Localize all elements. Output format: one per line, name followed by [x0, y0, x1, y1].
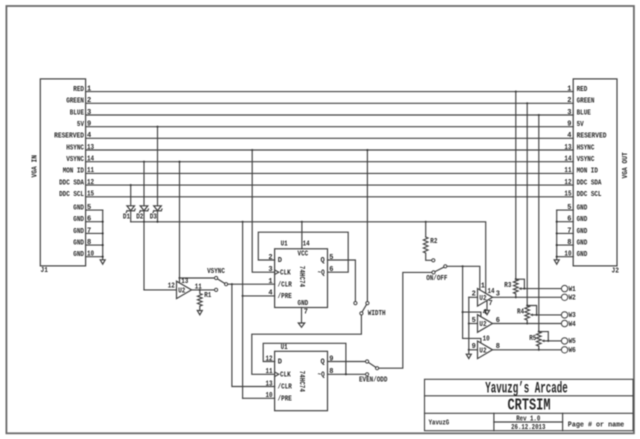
svg-text:VGA OUT: VGA OUT [622, 152, 630, 178]
wire J2 GND bus vertical [556, 210, 558, 260]
svg-text:1: 1 [567, 85, 571, 93]
svg-text:VSYNC: VSYNC [66, 156, 84, 164]
port W2 [561, 294, 567, 300]
junction VSYNC line tap [178, 161, 180, 163]
port W5 [561, 338, 567, 344]
svg-text:6: 6 [87, 216, 91, 224]
svg-text:VCC: VCC [298, 250, 309, 258]
wire U1A VCC to 5V bus [301, 222, 303, 249]
wire J2 GND10 stub [557, 256, 574, 258]
junction R4 wiper to W3 [536, 314, 538, 316]
wire CLR net vertical to U1B [232, 284, 275, 386]
J1 pin names [54, 86, 85, 199]
svg-text:J1: J1 [41, 267, 48, 275]
svg-text:3: 3 [87, 109, 91, 117]
svg-text:GND: GND [73, 228, 84, 236]
wire D1 cathode to 5V bus [130, 211, 132, 222]
connector J1 body [40, 79, 85, 266]
junction R5 wiper to W5 [547, 340, 549, 342]
terminal WIDTH common [360, 312, 363, 315]
svg-text:~Q: ~Q [318, 269, 325, 277]
junction 5V tap for D3 [156, 126, 158, 128]
terminal ON/OFF top throw [432, 259, 435, 262]
svg-text:2: 2 [567, 97, 571, 105]
terminal WIDTH right [366, 302, 369, 305]
junction OE rail top [462, 265, 464, 267]
svg-text:U2: U2 [479, 295, 486, 303]
wire BLUE drop to R5 [538, 115, 540, 332]
wire D2 anode from VSYNC [143, 162, 145, 206]
junction bus at D2 [143, 221, 145, 223]
svg-text:BLUE: BLUE [577, 109, 591, 117]
svg-text:13: 13 [266, 380, 273, 388]
wire J1 GND bus vertical [102, 210, 104, 260]
svg-text:DDC SCL: DDC SCL [577, 191, 602, 199]
buffer U2B [478, 315, 493, 333]
svg-text:U2: U2 [479, 321, 486, 329]
wire GREEN J1.2 to J2.2 [86, 102, 574, 104]
wire W3 row [537, 314, 562, 316]
svg-text:5: 5 [567, 204, 571, 212]
junction VSYNC at gate OE [178, 277, 180, 279]
svg-text:MON ID: MON ID [63, 168, 84, 176]
wire D3 anode from 5V [157, 127, 159, 206]
svg-text:5V: 5V [77, 121, 85, 129]
svg-text:3: 3 [567, 109, 571, 117]
svg-text:9: 9 [87, 121, 91, 129]
svg-text:R4: R4 [517, 309, 524, 317]
wire D2 riser down to gate input [143, 222, 145, 290]
svg-text:13: 13 [564, 144, 571, 152]
junction R4 bottom to W4 [526, 322, 528, 324]
wire gate U2D input pin 12 [144, 289, 177, 291]
port W4 [561, 320, 567, 326]
svg-text:U1: U1 [281, 344, 288, 352]
junction J2 GND7 [556, 232, 558, 234]
wire HSYNC J1.13 to J2.13 [86, 149, 574, 151]
svg-text:GND: GND [73, 216, 84, 224]
terminal EVEN/ODD top [366, 360, 369, 363]
junction J1 GND10 [102, 256, 104, 258]
wire J2 GND8 stub [557, 244, 574, 246]
J2 GND pins group [554, 204, 587, 264]
wire VSYNC J1.14 to J2.14 [86, 161, 574, 163]
svg-text:GND: GND [577, 204, 588, 212]
svg-text:D1: D1 [123, 214, 130, 222]
svg-text:14: 14 [87, 156, 94, 164]
wire DDC SCL J1.15 to J2.15 [86, 196, 574, 198]
svg-text:6: 6 [329, 266, 333, 274]
wire U2C input pin 9 [469, 349, 478, 351]
svg-text:4: 4 [87, 132, 91, 140]
clock wedge U1A [275, 270, 279, 275]
svg-text:1: 1 [268, 278, 272, 286]
svg-text:GND: GND [73, 251, 84, 259]
svg-text:/CLR: /CLR [278, 281, 293, 289]
ground symbol below J2 [554, 260, 559, 264]
buffer U2C [478, 341, 493, 359]
svg-text:3: 3 [268, 266, 272, 274]
wire gate U2D OE pin 13 [179, 278, 181, 283]
R5 wiper arrow [543, 340, 548, 342]
wire W6 row from U2C output [493, 349, 562, 351]
terminal ON/OFF bottom throw [432, 271, 435, 274]
wire RESERVED J1.4 to J2.4 [86, 137, 574, 139]
svg-text:DDC SDA: DDC SDA [59, 179, 85, 187]
svg-text:~Q: ~Q [318, 372, 325, 380]
ground symbol below U2A [485, 310, 490, 314]
J1 pin numbers [87, 85, 94, 198]
junction bus at R2 [425, 221, 427, 223]
svg-text:WIDTH: WIDTH [368, 310, 386, 318]
junction R4 top [526, 304, 528, 306]
svg-text:W5: W5 [569, 338, 576, 346]
resistor R2 [423, 222, 437, 260]
wire W5 row [548, 340, 561, 342]
switch VSYNC lever [218, 279, 225, 284]
svg-text:4: 4 [483, 309, 487, 317]
junction J2 GND10 [556, 256, 558, 258]
svg-text:D: D [278, 359, 282, 367]
title block frame [425, 379, 634, 430]
ground symbol below J1 [100, 260, 105, 264]
J2 pin names and numbers [564, 85, 606, 199]
buffer gate U2D [177, 281, 192, 298]
svg-text:GND: GND [73, 240, 84, 248]
junction input rail U2C [468, 349, 470, 351]
junction R3 wiper to W1 [523, 288, 525, 290]
wire 5V bus to R2 [425, 222, 427, 237]
svg-text:MON ID: MON ID [577, 168, 598, 176]
svg-text:CRTSIM: CRTSIM [508, 397, 551, 415]
svg-text:GND: GND [298, 300, 309, 308]
svg-text:DDC SCL: DDC SCL [59, 191, 84, 199]
svg-text:5V: 5V [577, 121, 585, 129]
port W3 [561, 312, 567, 318]
svg-text:W1: W1 [569, 286, 576, 294]
junction HSYNC at WIDTH riser [366, 149, 368, 151]
svg-text:1: 1 [481, 283, 485, 291]
svg-text:10: 10 [564, 251, 571, 259]
junction J2 GND8 [556, 244, 558, 246]
svg-text:W2: W2 [569, 295, 576, 303]
resistor R2 body [423, 237, 431, 260]
wire J1 GND7 stub [86, 232, 103, 234]
wire 5V supply bus horizontal [131, 222, 486, 293]
terminal VSYNC switch top [215, 276, 218, 279]
svg-text:R1: R1 [204, 292, 211, 300]
svg-text:13: 13 [181, 278, 188, 286]
svg-text:9: 9 [329, 355, 333, 363]
wire PRE to U1B pin 10 [243, 397, 275, 399]
wire R4 wiper hook [527, 306, 536, 315]
svg-text:GND: GND [73, 204, 84, 212]
wire D1 anode from DDC SDA [130, 185, 132, 206]
svg-text:5: 5 [329, 254, 333, 262]
wire U1B feedback /Q to D [263, 343, 346, 374]
wire U1B Q to EVEN/ODD switch [328, 361, 366, 363]
svg-text:74HC74: 74HC74 [297, 371, 305, 392]
wire D3 cathode to 5V bus [157, 211, 159, 222]
wire D2 cathode to 5V bus [143, 211, 145, 222]
svg-text:RESERVED: RESERVED [54, 133, 84, 141]
svg-text:/PRE: /PRE [278, 396, 292, 404]
svg-text:RED: RED [73, 86, 84, 94]
wire BLUE J1.3 to J2.3 [86, 114, 574, 116]
junction J2 GND6 [556, 221, 558, 223]
junction DDC SDA tap for D1 [130, 184, 132, 186]
IC U1A body [275, 249, 328, 308]
junction BLUE tap [538, 114, 540, 116]
svg-text:CLK: CLK [280, 372, 291, 380]
svg-text:CLK: CLK [280, 269, 291, 277]
diode D2 [140, 206, 148, 211]
wire buffer input rail [468, 297, 470, 354]
IC U1B body [275, 351, 328, 410]
svg-text:4: 4 [567, 132, 571, 140]
wire EVEN/ODD common to ON/OFF throw [379, 272, 432, 368]
svg-text:RESERVED: RESERVED [577, 133, 607, 141]
resistor R1 [198, 290, 203, 311]
svg-text:2: 2 [268, 254, 272, 262]
svg-text:HSYNC: HSYNC [66, 144, 84, 152]
wire GREEN drop to R4 [526, 103, 528, 305]
junction J1 GND7 [102, 232, 104, 234]
junction bus at U1 VCC [301, 221, 303, 223]
svg-text:/CLR: /CLR [278, 384, 293, 392]
svg-text:15: 15 [87, 191, 94, 199]
svg-text:Rev 1.0: Rev 1.0 [516, 416, 540, 424]
svg-text:7: 7 [304, 309, 308, 317]
svg-text:ON/OFF: ON/OFF [426, 275, 447, 283]
wire WIDTH common to U1B clock [252, 315, 362, 374]
svg-text:7: 7 [87, 227, 91, 235]
svg-text:11: 11 [564, 167, 571, 175]
wire VSYNC to switch top terminal [180, 277, 215, 279]
junction CLR net [231, 283, 233, 285]
wire J1 GND8 stub [86, 244, 103, 246]
svg-text:D: D [278, 257, 282, 265]
svg-text:GND: GND [577, 216, 588, 224]
ground symbol below U1A [298, 323, 304, 327]
svg-text:10: 10 [266, 392, 273, 400]
svg-text:8: 8 [87, 239, 91, 247]
svg-text:GREEN: GREEN [66, 98, 84, 106]
svg-text:GREEN: GREEN [577, 98, 595, 106]
ground symbol input rail [466, 354, 471, 358]
svg-text:U1: U1 [281, 241, 288, 249]
wire W4 row from U2B output [493, 323, 562, 325]
port W6 [561, 347, 567, 353]
wire OE rail vertical [462, 266, 464, 338]
svg-text:W6: W6 [569, 347, 576, 355]
junction R3 top [515, 278, 517, 280]
wire gate U2D output [192, 289, 215, 291]
junction R1 tap [199, 289, 201, 291]
wire U1A GND pin 7 [301, 308, 303, 324]
svg-text:U2: U2 [479, 348, 486, 356]
wire DDC SDA J1.12 to J2.12 [86, 184, 574, 186]
svg-text:EVEN/ODD: EVEN/ODD [359, 377, 387, 385]
wire J1 GND10 stub [86, 256, 103, 258]
clock wedge U1B [275, 372, 279, 377]
port W1 [561, 285, 567, 291]
junction VSYNC tap for D2 [143, 161, 145, 163]
wire U1A Q to WIDTH switch [328, 260, 356, 302]
svg-text:7: 7 [567, 227, 571, 235]
wire HSYNC to U1A clock [252, 150, 274, 272]
junction GREEN tap [526, 102, 528, 104]
svg-text:12: 12 [266, 355, 273, 363]
junction R5 top [538, 331, 540, 333]
svg-text:R3: R3 [504, 282, 511, 290]
junction HSYNC tap for clock [251, 149, 253, 151]
wire U1B /Q row [328, 373, 366, 375]
svg-text:D2: D2 [136, 214, 143, 222]
switch ON/OFF (SPDT) [426, 259, 447, 283]
wire RED drop to R3 [515, 92, 517, 280]
ground symbol below R1 [197, 311, 202, 315]
trimmer R3 body [514, 279, 519, 297]
wire J1 GND6 stub [86, 221, 103, 223]
svg-text:GND: GND [577, 228, 588, 236]
svg-text:8: 8 [329, 368, 333, 376]
svg-text:6: 6 [567, 216, 571, 224]
diode D1 [127, 206, 135, 211]
wire U2A GND pin 7 [486, 301, 488, 311]
junction OE rail mid [462, 311, 464, 313]
svg-text:12: 12 [168, 283, 175, 291]
svg-text:BLUE: BLUE [70, 109, 84, 117]
trimmer R4 body [525, 306, 530, 324]
wire J2 GND6 stub [557, 221, 574, 223]
wire J2 GND7 stub [557, 232, 574, 234]
svg-text:9: 9 [567, 121, 571, 129]
junction PRE net at U1A [242, 295, 244, 297]
junction R3 bottom to W2 [515, 296, 517, 298]
switch VSYNC (SPDT) [207, 268, 228, 292]
svg-text:14: 14 [303, 241, 310, 249]
svg-text:Q: Q [320, 359, 324, 367]
wire J2 GND5 stub [557, 209, 574, 211]
svg-text:RED: RED [577, 86, 588, 94]
svg-text:GND: GND [577, 251, 588, 259]
R4 wiper arrow [532, 314, 537, 316]
svg-text:12: 12 [564, 179, 571, 187]
svg-text:7: 7 [489, 300, 493, 308]
J1 GND pins group [73, 204, 105, 264]
svg-text:14: 14 [564, 156, 571, 164]
svg-text:11: 11 [195, 284, 202, 292]
svg-text:Page # or name: Page # or name [568, 421, 624, 429]
svg-text:YavuzG: YavuzG [429, 420, 450, 428]
switch EVEN/ODD lever [369, 363, 376, 368]
R3 wiper arrow [520, 288, 524, 290]
svg-text:HSYNC: HSYNC [577, 144, 595, 152]
svg-text:13: 13 [87, 144, 94, 152]
terminal ON/OFF common [444, 265, 447, 268]
svg-text:U2: U2 [178, 288, 185, 296]
terminal WIDTH left [354, 302, 357, 305]
svg-text:W3: W3 [569, 312, 576, 320]
wire U1A feedback /Q to D [258, 232, 348, 272]
wire PRE net riser (5V to PRE pins) [242, 222, 244, 398]
svg-text:R5: R5 [529, 335, 536, 343]
svg-text:2: 2 [87, 97, 91, 105]
svg-text:J2: J2 [612, 267, 619, 275]
wire ON/OFF common to buffer enables [447, 266, 480, 290]
svg-text:1: 1 [87, 85, 91, 93]
svg-text:W4: W4 [569, 321, 576, 329]
svg-text:GND: GND [577, 240, 588, 248]
svg-text:8: 8 [567, 239, 571, 247]
svg-text:DDC SDA: DDC SDA [577, 179, 603, 187]
svg-text:74HC74: 74HC74 [297, 266, 305, 287]
buffer U2A [478, 289, 493, 307]
switch ON/OFF lever [435, 267, 444, 271]
switch WIDTH lever [362, 305, 366, 312]
wire OE branch to U2C [463, 338, 481, 342]
terminal EVEN/ODD common [376, 367, 379, 370]
wire R5 wiper hook [539, 332, 549, 341]
terminal VSYNC switch bottom [215, 288, 218, 291]
svg-text:11: 11 [87, 167, 94, 175]
junction RED tap [515, 91, 517, 93]
connector J2 body [573, 79, 617, 266]
svg-text:12: 12 [87, 179, 94, 187]
junction /Q feedback [345, 373, 347, 375]
junction J1 GND8 [102, 244, 104, 246]
junction input rail U2B [468, 322, 470, 324]
wire W2 row from U2A output [493, 296, 562, 298]
switch WIDTH (SPDT) [354, 302, 386, 318]
wire U2A input pin 2 [469, 296, 478, 298]
terminal VSYNC switch common [225, 283, 228, 286]
wire WIDTH right terminal to HSYNC [366, 150, 368, 302]
wire W1 row [524, 288, 561, 290]
svg-text:5: 5 [87, 204, 91, 212]
svg-text:11: 11 [266, 368, 273, 376]
wire RED J1.1 to J2.1 [86, 91, 574, 93]
wire OE branch to U2B [463, 312, 481, 316]
svg-text:26.12.2013: 26.12.2013 [511, 424, 545, 432]
wire J1 GND5 stub [86, 209, 103, 211]
svg-text:VSYNC: VSYNC [577, 156, 595, 164]
svg-text:Q: Q [320, 257, 324, 265]
terminal EVEN/ODD bottom [366, 373, 369, 376]
svg-text:R2: R2 [430, 238, 437, 246]
junction bus at PRE riser [242, 221, 244, 223]
svg-text:4: 4 [268, 290, 272, 298]
svg-text:15: 15 [564, 191, 571, 199]
svg-text:/PRE: /PRE [278, 293, 292, 301]
svg-text:10: 10 [483, 336, 490, 344]
junction J1 GND6 [102, 221, 104, 223]
diode D3 [154, 206, 162, 211]
svg-text:D3: D3 [150, 214, 157, 222]
wire MON ID J1.11 to J2.11 [86, 172, 574, 174]
svg-text:VGA IN: VGA IN [31, 155, 39, 178]
switch EVEN/ODD (SPDT) [359, 360, 387, 385]
svg-text:Yavuzg’s Arcade: Yavuzg’s Arcade [485, 379, 568, 397]
junction bus at D3 [156, 221, 158, 223]
trimmer R5 body [537, 332, 542, 350]
junction R5 bottom to W6 [538, 349, 540, 351]
wire 5V J1.9 to J2.9 [86, 126, 574, 128]
svg-text:VSYNC: VSYNC [207, 268, 225, 276]
wire VSYNC switch common to U1 CLR [228, 283, 275, 285]
wire R3 wiper hook [516, 279, 525, 288]
